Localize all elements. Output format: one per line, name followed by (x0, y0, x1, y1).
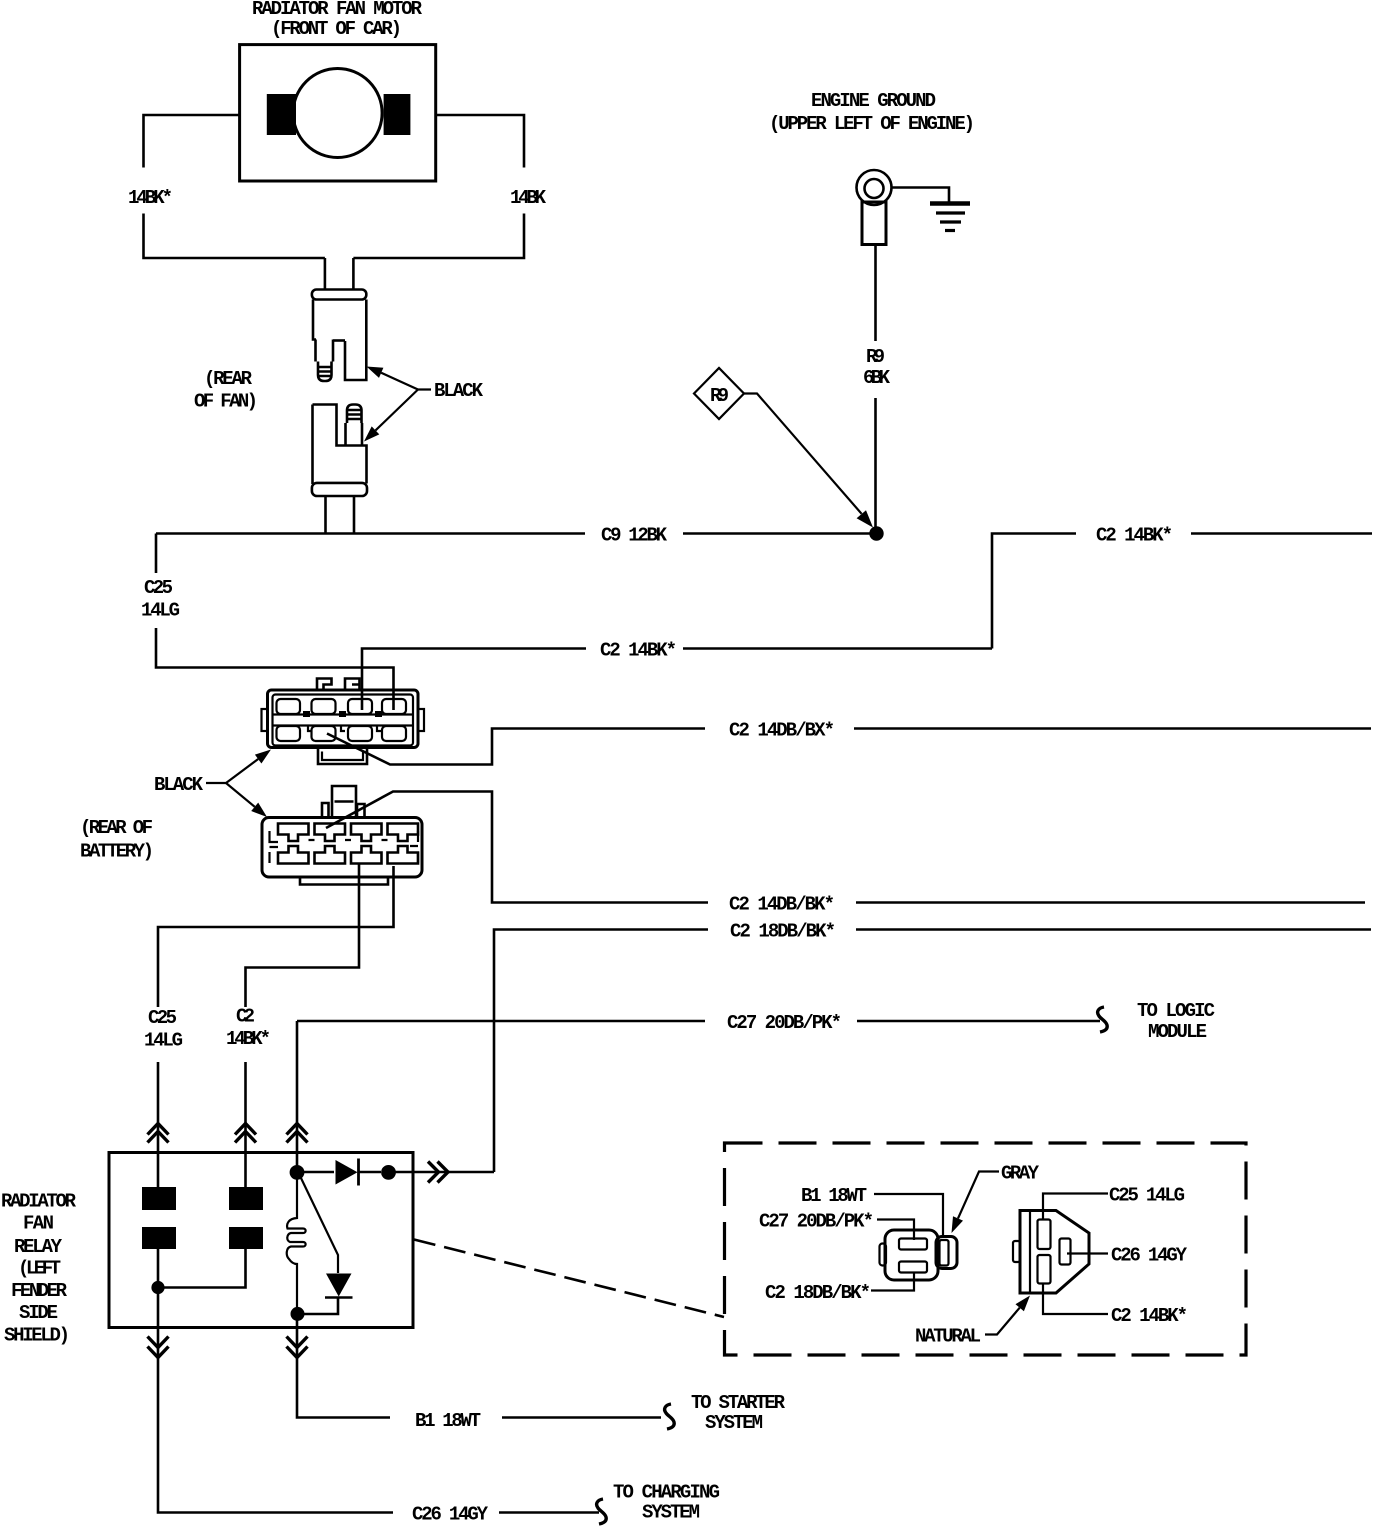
svg-text:R9: R9 (710, 385, 729, 407)
connector: relay connector detail (natural) (1013, 1211, 1089, 1294)
wire: C2 14BK* mid-right segment (683, 647, 992, 650)
gray connector cavity B1 (940, 1240, 949, 1266)
wire: diode D1 to output node (359, 1171, 382, 1174)
wire: C2 14BK* mid segment from connector A (362, 649, 586, 711)
svg-text:SYSTEM: SYSTEM (705, 1412, 763, 1434)
node: junction dot C9/ground (869, 526, 883, 540)
svg-text:C26 14GY: C26 14GY (412, 1503, 489, 1525)
wire: C9 12BK bus right segment to junction (683, 532, 872, 535)
symbol: inline chevron on relay output (428, 1162, 439, 1183)
connector A center key bar (273, 715, 414, 726)
wire: C27 20DB/PK* right segment (857, 1020, 1100, 1023)
connector A right lock tab (418, 709, 424, 731)
wire: contact common tie bar (158, 1249, 246, 1288)
wire: coil return to B1 18WT (297, 1327, 390, 1418)
leader: BLACK to upper connector half with arrowhead (381, 373, 431, 390)
svg-text:(LEFT: (LEFT (18, 1258, 61, 1280)
node: relay contact common junction (151, 1281, 164, 1294)
wire: connector B pin to C25 14LG relay branch (158, 866, 394, 1007)
wire: C2 18DB/BK* left segment (494, 930, 708, 1173)
svg-text:FAN: FAN (23, 1213, 54, 1235)
wire: diode D2 to coil bottom (304, 1298, 338, 1314)
svg-text:OF FAN): OF FAN) (194, 391, 258, 413)
symbol: break squiggle to charging system (597, 1499, 607, 1524)
connector B cavity maze top row (278, 824, 418, 842)
wire: junction to diode D1 (297, 1171, 334, 1174)
svg-text:TO STARTER: TO STARTER (691, 1392, 786, 1414)
connector A: 8-way connector (rear of battery, terminal side) (262, 679, 425, 765)
motor M1: armature circle (293, 69, 382, 158)
gray connector right tab (936, 1237, 957, 1269)
ground: earth ground symbol (930, 201, 970, 205)
leader: B1 to gray connector (874, 1194, 943, 1238)
svg-text:C2 18DB/BK*: C2 18DB/BK* (730, 920, 836, 942)
relay K1: radiator fan relay box (109, 1153, 413, 1328)
leader: BLACK to lower connector half with arrowhead (376, 390, 419, 431)
node: relay coil top junction (290, 1165, 305, 1180)
svg-text:C2 14DB/BK*: C2 14DB/BK* (729, 893, 835, 915)
connector A left lock tab (262, 709, 268, 731)
wire: coil bottom out of relay (296, 1308, 299, 1327)
connector B: 8-way mating connector (rear of battery) (262, 786, 422, 885)
svg-text:C2 18DB/BK*: C2 18DB/BK* (765, 1282, 871, 1304)
svg-text:MODULE: MODULE (1148, 1021, 1207, 1043)
svg-text:R9: R9 (866, 346, 885, 368)
svg-text:(UPPER LEFT OF ENGINE): (UPPER LEFT OF ENGINE) (769, 113, 975, 135)
svg-text:NATURAL: NATURAL (915, 1325, 981, 1347)
svg-text:SIDE: SIDE (19, 1302, 58, 1324)
svg-text:BLACK: BLACK (154, 774, 204, 796)
natural connector left bump (1013, 1241, 1020, 1262)
natural connector cavity C2 (1038, 1255, 1051, 1284)
wire: C25 14LG drop from C9 bus upper segment (155, 534, 158, 574)
leader: R9 diamond to junction with arrowhead (744, 394, 862, 514)
wire: C2 14DB/BX* right segment (854, 727, 1371, 730)
natural connector cavity C25 (1038, 1220, 1051, 1250)
leader: GRAY arrow to connector (958, 1172, 999, 1219)
leader: C2 18DB/BK* to gray connector (871, 1273, 914, 1291)
wire: C27 20DB/PK* drop to relay coil (296, 1021, 299, 1172)
natural connector body (1020, 1211, 1089, 1294)
connector: relay connector detail (gray) (880, 1230, 958, 1280)
relay K1: coil winding (287, 1178, 306, 1308)
leader: C25 to natural connector (1043, 1194, 1108, 1220)
svg-text:GRAY: GRAY (1001, 1162, 1040, 1184)
connector A terminal cavities bottom row (277, 726, 301, 741)
gray connector cavity C2 (899, 1262, 927, 1273)
symbol: inline chevrons on C2 14BK* (235, 1124, 256, 1135)
wire: ring terminal to ground symbol (892, 188, 950, 203)
wire: C2 14BK* to right edge (1191, 532, 1372, 535)
svg-text:FENDER: FENDER (11, 1280, 68, 1302)
node: relay coil bottom junction (291, 1307, 305, 1321)
connector A outer shell (268, 690, 419, 748)
natural connector inner wall (1029, 1212, 1031, 1293)
connector: fan motor inline connector upper half (black) (312, 290, 366, 382)
svg-text:(REAR OF: (REAR OF (80, 817, 153, 839)
terminal: engine ground ring terminal (857, 170, 892, 205)
symbol: break squiggle to starter system (665, 1404, 675, 1429)
svg-text:RADIATOR FAN MOTOR: RADIATOR FAN MOTOR (252, 0, 423, 20)
leader: BLACK to connector B with arrowhead (226, 783, 255, 807)
connector B bottom tab (300, 877, 388, 885)
svg-text:TO LOGIC: TO LOGIC (1137, 1000, 1215, 1022)
svg-text:RELAY: RELAY (14, 1236, 63, 1258)
svg-text:BATTERY): BATTERY) (80, 841, 154, 863)
svg-text:C25 14LG: C25 14LG (1109, 1184, 1185, 1206)
natural connector cavity C26 (1060, 1239, 1071, 1265)
motor M1: radiator fan motor outline box (240, 45, 436, 181)
svg-text:14BK: 14BK (510, 187, 547, 209)
svg-text:SYSTEM: SYSTEM (642, 1501, 700, 1523)
wire: C2 14BK* into relay (244, 1062, 247, 1188)
wire: motor right lead 14BK upper segment (436, 115, 524, 168)
svg-text:6BK: 6BK (863, 367, 891, 389)
box: dashed connector detail box (725, 1143, 1247, 1355)
leader: C26 to natural connector (1067, 1252, 1108, 1254)
wire: B1 18WT right segment (502, 1416, 661, 1419)
svg-text:C2 14BK*: C2 14BK* (1111, 1305, 1188, 1327)
relay K1: contact pad 2 (filled) (229, 1187, 263, 1210)
svg-text:SHIELD): SHIELD) (4, 1325, 70, 1347)
wire: motor left lead 14BK* upper segment (144, 115, 241, 168)
connector A top prongs (317, 679, 332, 691)
wire: motor left lead 14BK* lower segment (144, 214, 325, 259)
wire: C9 12BK bus left segment (156, 532, 585, 535)
svg-text:(REAR: (REAR (204, 368, 253, 390)
connector A bottom tab (318, 748, 367, 765)
gray connector body (885, 1230, 938, 1280)
svg-text:C9 12BK: C9 12BK (601, 524, 668, 546)
symbol: R9 reference diamond (694, 368, 744, 419)
diode D1: series diode (filled triangle + bar) (336, 1160, 358, 1185)
gray connector cavity C27 (899, 1239, 927, 1250)
svg-text:C27 20DB/PK*: C27 20DB/PK* (727, 1012, 842, 1034)
relay K1: movable switch arm (300, 1176, 338, 1273)
svg-text:C25: C25 (144, 577, 173, 599)
wire: C2 14DB/BK* right segment (856, 901, 1365, 904)
connector A inner shell line (273, 695, 414, 746)
svg-text:14BK*: 14BK* (226, 1028, 271, 1050)
wire: stub into fan connector left (324, 258, 327, 290)
svg-text:C26 14GY: C26 14GY (1111, 1244, 1188, 1266)
motor M1: right brush (filled) (384, 94, 411, 135)
symbol: exit chevrons on C26 wire (148, 1337, 169, 1348)
connector: fan motor inline connector lower half (black) (312, 405, 367, 497)
symbol: inline chevrons on C27 drop (287, 1124, 308, 1135)
diode D2: suppression diode (filled triangle + bar) (326, 1274, 352, 1297)
symbol: break squiggle to logic module (1098, 1007, 1108, 1032)
connector B cavity maze middle band marks (270, 831, 419, 847)
wire: C26 14GY right segment (499, 1511, 599, 1514)
connector B top center tab (332, 786, 356, 817)
svg-text:14BK*: 14BK* (128, 187, 173, 209)
gray connector left bump (880, 1244, 887, 1266)
svg-text:14LG: 14LG (141, 600, 180, 622)
leader: C2 14BK* to natural connector (1043, 1284, 1108, 1314)
svg-text:14LG: 14LG (144, 1030, 183, 1052)
leader: BLACK to connector A with arrowhead (206, 759, 258, 783)
svg-text:TO CHARGING: TO CHARGING (613, 1481, 720, 1503)
relay K1: contact pad 1 (filled) (142, 1187, 176, 1210)
svg-text:(FRONT OF CAR): (FRONT OF CAR) (271, 18, 402, 40)
label: RADIATOR FAN MOTOR title (252, 0, 423, 40)
svg-text:B1 18WT: B1 18WT (801, 1185, 867, 1207)
svg-text:C2 14BK*: C2 14BK* (600, 639, 677, 661)
wire: C2 14DB/BX* from connector A pin diagonal (327, 729, 705, 765)
wire: ground wire R9 6BK lower segment (874, 398, 877, 528)
wire: C27 20DB/PK* left segment (297, 1020, 705, 1023)
leader: C27 to gray connector (877, 1220, 914, 1241)
connector A terminal cavities top row (277, 699, 301, 714)
svg-text:C25: C25 (148, 1007, 177, 1029)
wire: C25 14LG into relay (157, 1062, 160, 1188)
wire: C2 14BK* top-right segment (992, 534, 1076, 649)
symbol: inline chevrons on C25 14LG (148, 1124, 169, 1135)
wire: C2 14DB/BK* from connector B diagonal (326, 792, 708, 903)
wire: contact common down and out of relay (157, 1288, 160, 1328)
svg-text:C27 20DB/PK*: C27 20DB/PK* (759, 1210, 874, 1232)
leader: dashed line from relay to detail box (414, 1240, 724, 1318)
svg-text:C2 14BK*: C2 14BK* (1096, 524, 1173, 546)
wire: connector B pin to C2 14BK* relay branch (246, 864, 360, 1007)
svg-text:ENGINE GROUND: ENGINE GROUND (811, 90, 936, 112)
svg-text:RADIATOR: RADIATOR (1, 1191, 77, 1213)
leader: NATURAL arrow to connector (985, 1308, 1020, 1335)
wire: fan connector lower stubs to C9 bus (326, 496, 355, 534)
connector B top prongs (322, 803, 365, 817)
wire: relay contact column 1 lower lead (157, 1249, 160, 1288)
svg-text:C2 14DB/BX*: C2 14DB/BX* (729, 719, 835, 741)
node: relay output junction (381, 1165, 396, 1180)
svg-text:B1 18WT: B1 18WT (415, 1410, 481, 1432)
connector B shell (262, 818, 422, 878)
wire: motor right lead 14BK lower segment (353, 214, 524, 259)
relay K1: contact pad 3 (filled) (142, 1227, 176, 1249)
motor M1: left brush (filled) (267, 94, 296, 135)
wire: ground wire R9 6BK upper segment (874, 245, 877, 342)
svg-text:C2: C2 (236, 1006, 255, 1028)
relay K1: contact pad 4 (filled) (229, 1227, 263, 1249)
wire: C2 18DB/BK* right segment (856, 928, 1371, 931)
wire: relay output line through box edge (395, 1171, 494, 1174)
svg-text:BLACK: BLACK (434, 380, 484, 402)
wire: C25 14LG lower segment into connector A (156, 628, 394, 710)
connector B cavity maze bottom row (278, 846, 418, 864)
wire: stub into fan connector right (352, 258, 355, 290)
wire: contact common to C26 14GY (158, 1327, 393, 1513)
symbol: exit chevrons on B1 wire (287, 1337, 308, 1348)
